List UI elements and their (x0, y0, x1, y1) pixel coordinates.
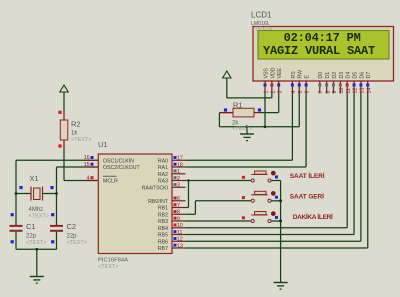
svg-text:SAAT GERİ: SAAT GERİ (290, 192, 324, 200)
svg-text:RA2: RA2 (158, 172, 168, 178)
svg-text:RA1: RA1 (158, 165, 168, 171)
svg-text:RA3: RA3 (158, 179, 168, 185)
svg-text:<TEXT>: <TEXT> (67, 240, 87, 246)
svg-text:U1: U1 (98, 140, 108, 149)
svg-text:11: 11 (177, 230, 182, 236)
svg-text:VEE: VEE (277, 68, 283, 79)
svg-text:E: E (305, 75, 311, 79)
svg-text:4: 4 (291, 91, 297, 94)
svg-text:C2: C2 (67, 222, 77, 231)
svg-text:7: 7 (177, 203, 180, 209)
svg-text:18: 18 (177, 162, 183, 168)
svg-text:2: 2 (177, 176, 180, 182)
svg-text:RA0: RA0 (158, 158, 168, 164)
svg-text:D2: D2 (332, 72, 338, 79)
svg-text:X1: X1 (30, 174, 39, 183)
svg-text:9: 9 (177, 216, 180, 222)
svg-text:RB7: RB7 (158, 246, 168, 252)
svg-text:D5: D5 (352, 72, 358, 79)
svg-text:17: 17 (177, 156, 183, 162)
svg-text:8: 8 (177, 210, 180, 216)
svg-text:RB1: RB1 (158, 206, 168, 212)
svg-text:14: 14 (366, 88, 372, 94)
svg-text:D3: D3 (339, 72, 345, 79)
svg-text:YAGIZ VURAL SAAT: YAGIZ VURAL SAAT (263, 44, 375, 58)
svg-text:RB2: RB2 (158, 212, 168, 218)
svg-text:RB3: RB3 (158, 219, 168, 225)
svg-text:R1: R1 (233, 101, 243, 110)
svg-text:6: 6 (177, 196, 180, 202)
svg-text:PIC16F84A: PIC16F84A (98, 258, 128, 264)
svg-text:3: 3 (277, 91, 283, 94)
svg-text:7: 7 (318, 91, 324, 94)
svg-text:12: 12 (177, 237, 183, 243)
svg-text:5: 5 (298, 91, 304, 94)
svg-text:RB5: RB5 (158, 233, 168, 239)
svg-text:1: 1 (177, 169, 180, 175)
svg-text:DAKİKA İLERİ: DAKİKA İLERİ (293, 213, 333, 221)
svg-text:1k: 1k (71, 131, 78, 137)
svg-text:<TEXT>: <TEXT> (98, 264, 118, 270)
svg-text:OSC2/CLKOUT: OSC2/CLKOUT (103, 165, 140, 171)
svg-text:VSS: VSS (263, 68, 269, 79)
svg-text:RB6: RB6 (158, 239, 168, 245)
svg-text:R2: R2 (71, 120, 81, 129)
svg-text:C1: C1 (26, 222, 36, 231)
svg-text:13: 13 (360, 88, 366, 94)
svg-text:<TEXT>: <TEXT> (29, 214, 49, 220)
svg-text:D1: D1 (325, 72, 331, 79)
svg-text:4Mhz: 4Mhz (29, 207, 44, 213)
svg-text:OSC1/CLKIN: OSC1/CLKIN (103, 158, 134, 164)
svg-text:8: 8 (325, 91, 331, 94)
svg-text:9: 9 (332, 91, 338, 94)
svg-text:2: 2 (270, 91, 276, 94)
svg-text:12: 12 (353, 88, 359, 94)
svg-text:D6: D6 (359, 72, 365, 79)
svg-text:15: 15 (84, 162, 90, 168)
svg-text:D0: D0 (318, 72, 324, 79)
svg-text:RS: RS (291, 71, 297, 79)
svg-text:16: 16 (84, 155, 90, 161)
svg-text:RB4: RB4 (158, 226, 168, 232)
svg-text:4: 4 (87, 175, 90, 181)
svg-text:3: 3 (177, 183, 180, 189)
svg-text:RB0/INT: RB0/INT (148, 199, 169, 205)
svg-text:<TEXT>: <TEXT> (26, 240, 46, 246)
svg-text:LCD1: LCD1 (251, 11, 272, 20)
svg-text:VDD: VDD (270, 67, 276, 78)
svg-text:D7: D7 (366, 72, 372, 79)
svg-text:1: 1 (264, 91, 270, 94)
svg-text:13: 13 (177, 243, 183, 249)
svg-text:<TEXT>: <TEXT> (232, 126, 252, 132)
svg-text:SAAT İLERİ: SAAT İLERİ (290, 172, 325, 180)
svg-text:D4: D4 (346, 72, 352, 79)
svg-text:RA4/T0CKI: RA4/T0CKI (142, 185, 168, 191)
svg-text:<TEXT>: <TEXT> (71, 137, 91, 143)
svg-text:10: 10 (339, 88, 345, 94)
svg-text:RW: RW (298, 70, 304, 79)
svg-text:10: 10 (177, 223, 183, 229)
svg-text:22p: 22p (67, 234, 78, 240)
svg-text:22p: 22p (26, 234, 37, 240)
svg-text:02:04:17 PM: 02:04:17 PM (284, 31, 361, 45)
svg-text:11: 11 (346, 88, 352, 93)
svg-text:6: 6 (305, 91, 311, 94)
svg-text:MCLR: MCLR (103, 179, 118, 185)
